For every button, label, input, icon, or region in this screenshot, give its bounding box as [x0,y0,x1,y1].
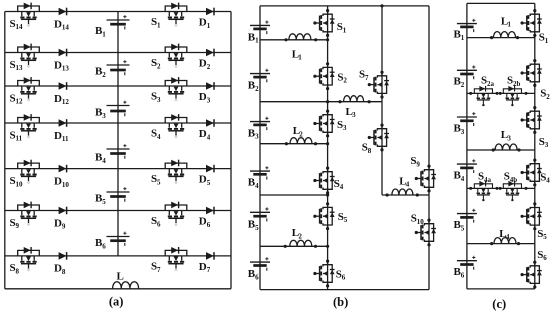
wire switch column of (b) [327,6,329,290]
transistor S1 [151,3,187,30]
battery B2 of (c) [454,65,477,89]
wire L4 link of (b) [382,194,429,196]
transistor S3 of (b) [313,110,347,138]
svg-text:2: 2 [343,77,347,85]
transistor S4a [474,171,492,202]
transistor S6 of (b) [313,260,345,288]
battery B5 of (c) [454,209,477,233]
svg-text:3: 3 [461,128,465,136]
svg-text:4: 4 [102,157,106,165]
battery B5 [95,187,130,206]
wire S7-S8 branch of (b) [381,6,383,195]
svg-text:2: 2 [207,63,211,71]
svg-text:2: 2 [461,81,465,89]
battery B1 of (b) [248,21,270,45]
transistor S14 [10,3,40,32]
svg-text:D: D [54,18,62,30]
svg-text:10: 10 [62,181,70,189]
wire left battery bus of (b) [259,6,261,290]
transistor S1 of (c) [521,9,549,45]
battery B3 [95,101,130,120]
wire top rail of (c) [467,2,535,4]
diode D6 [199,207,214,229]
svg-text:D: D [199,128,207,140]
diode D12 [54,82,69,106]
svg-text:3: 3 [352,111,356,119]
svg-text:4: 4 [255,182,259,190]
diode D2 [199,49,214,71]
svg-text:1: 1 [461,34,465,42]
transistor S10 of (b) [411,213,436,247]
transistor S6 of (c) [521,249,548,289]
svg-text:L: L [117,271,124,283]
battery B6 of (c) [454,256,477,280]
battery B2 of (b) [248,69,270,93]
diode D1 [199,8,214,30]
svg-text:10: 10 [16,180,24,188]
svg-text:4a: 4a [484,176,492,184]
svg-text:D: D [199,215,207,227]
diode D8 [54,252,67,276]
battery B6 [95,232,130,251]
wire middle battery bus of (a) [117,12,119,256]
svg-text:D: D [199,91,207,103]
transistor S2a [474,75,494,107]
transistor S2 of (c) [521,59,550,101]
wire row 4 of (a) [5,122,231,124]
battery B5 of (b) [248,207,270,232]
wire B3-B4 link of (b) [260,143,328,145]
svg-text:3: 3 [102,112,106,120]
svg-text:8: 8 [62,268,66,276]
wire B2-B3 link with L3 of (b) [260,101,382,103]
transistor S5 of (c) [521,202,548,241]
diode D14 [54,8,69,32]
battery B3 of (c) [454,112,477,136]
inductor L2 upper of (b) [290,125,312,144]
svg-text:6: 6 [207,221,211,229]
transistor S4 of (c) [521,159,550,187]
svg-text:D: D [54,59,62,71]
transistor S9 [10,202,40,231]
transistor S4b [503,171,521,202]
wire row 6 of (a) [5,210,231,212]
svg-text:D: D [199,57,207,69]
svg-text:4: 4 [157,133,161,141]
transistor S11 [10,114,40,143]
svg-text:D: D [199,261,207,273]
wire B4-B5 link of (b) [260,194,328,196]
svg-text:3: 3 [157,96,161,104]
svg-text:5: 5 [543,233,547,241]
svg-text:4: 4 [546,177,550,185]
svg-text:(b): (b) [333,295,348,309]
diode D7 [199,252,214,274]
svg-text:5: 5 [344,216,348,224]
wire row 5 of (a) [5,168,231,170]
svg-text:6: 6 [543,254,547,262]
wire L1 link of (b) [260,39,328,41]
wire L1 link of (c) [467,37,535,39]
battery B4 of (b) [248,166,270,190]
wire right border of (b) [428,6,430,290]
transistor S1 of (b) [313,9,346,37]
inductor L1 of (c) [494,15,516,37]
svg-text:2: 2 [546,93,550,101]
wire row 2 of (a) [5,52,231,54]
svg-text:5: 5 [461,225,465,233]
battery B4 [95,144,130,165]
svg-text:9: 9 [416,160,420,168]
inductor L4 of (c) [494,228,516,244]
svg-text:6: 6 [342,274,346,282]
svg-text:9: 9 [62,223,66,231]
transistor S8 [10,247,40,276]
svg-text:1: 1 [207,22,211,30]
transistor S5 [151,160,187,187]
svg-text:1: 1 [545,37,549,45]
svg-text:6: 6 [102,242,106,250]
transistor S5 of (b) [313,202,347,230]
svg-text:D: D [54,217,62,229]
svg-text:2: 2 [255,85,259,93]
inductor L3 of (c) [495,129,517,150]
svg-text:14: 14 [62,24,70,32]
svg-text:D: D [54,175,62,187]
svg-text:11: 11 [16,135,23,143]
svg-text:D: D [199,174,207,186]
svg-text:13: 13 [16,64,24,72]
transistor S6 [151,202,187,229]
svg-text:3: 3 [545,141,549,149]
wire bottom rail of (a) [5,288,231,290]
svg-text:7: 7 [365,74,369,82]
svg-text:10: 10 [417,218,425,226]
svg-text:2: 2 [157,63,161,71]
svg-text:2a: 2a [487,80,495,88]
svg-text:6: 6 [157,221,161,229]
transistor S2 [151,44,187,71]
svg-text:D: D [199,16,207,28]
svg-text:4: 4 [461,175,465,183]
svg-text:7: 7 [207,266,211,274]
diode D11 [54,119,69,143]
battery B3 of (b) [248,117,270,141]
wire bottom rail of (b) [260,289,429,291]
transistor S7 of (b) [359,69,389,99]
svg-text:2: 2 [299,130,303,138]
transistor S4 of (b) [313,167,343,195]
battery B2 [95,60,130,79]
svg-text:12: 12 [16,98,24,106]
svg-text:D: D [54,93,62,105]
svg-text:3: 3 [207,96,211,104]
transistor S10 [10,160,40,189]
svg-text:14: 14 [16,23,24,31]
svg-text:6: 6 [461,272,465,280]
svg-text:3: 3 [255,133,259,141]
diode D4 [199,119,214,141]
transistor S12 [10,77,40,106]
wire row 1 of (a) [5,11,231,13]
svg-text:1: 1 [157,22,161,30]
wire L4 link of (c) [467,243,535,245]
svg-text:5: 5 [102,198,106,206]
svg-text:8: 8 [368,147,372,155]
svg-text:(c): (c) [492,297,506,311]
transistor S7 [151,247,187,274]
wire S2a-S2b link of (c) [467,92,535,94]
inductor L3 of (b) [344,96,364,120]
svg-text:4: 4 [340,183,344,191]
wire L3 link of (c) [467,149,535,151]
wire top rail of (b) [260,5,429,7]
wire right switch bus of (c) [534,3,536,289]
wire row 3 of (a) [5,85,231,87]
diode D9 [54,207,67,231]
wire left battery bus of (c) [466,3,468,289]
svg-text:1: 1 [102,30,106,38]
inductor L4 of (b) [392,175,413,195]
svg-text:6: 6 [255,273,259,281]
wire S4a-S4b link of (c) [467,187,535,189]
diode D5 [199,165,214,187]
svg-text:2: 2 [102,71,106,79]
transistor S8 of (b) [362,124,389,155]
svg-text:4: 4 [207,133,211,141]
transistor S2 of (b) [313,62,347,90]
inductor L2 lower of (b) [290,227,312,246]
svg-text:(a): (a) [109,295,124,309]
inductor L1 of (b) [289,34,311,62]
transistor S13 [10,44,40,73]
svg-text:3: 3 [507,134,511,142]
svg-text:2: 2 [298,233,302,241]
svg-text:12: 12 [62,98,70,106]
battery B1 of (c) [454,19,477,42]
svg-text:9: 9 [16,222,20,230]
wire row 7 of (a) [5,255,231,257]
transistor S3 [151,77,187,104]
svg-text:5: 5 [157,179,161,187]
svg-text:5: 5 [207,179,211,187]
battery B6 of (b) [248,257,270,281]
wire left border of (a) [4,12,6,289]
svg-text:1: 1 [255,37,259,45]
battery B1 [95,15,130,38]
wire bottom rail of (c) [467,288,535,290]
svg-text:1: 1 [508,21,512,29]
svg-text:1: 1 [343,27,347,35]
wire right border of (a) [230,12,232,289]
diode D3 [199,82,214,104]
battery B4 of (c) [454,159,477,183]
transistor S4 [151,114,187,141]
wire B5-B6 link of (b) [260,245,328,247]
svg-text:D: D [54,130,62,142]
diode D13 [54,49,69,73]
svg-text:D: D [54,263,62,275]
svg-text:5: 5 [255,224,259,232]
transistor S3 of (c) [521,106,549,149]
svg-text:4: 4 [506,233,510,241]
diode D10 [54,165,69,189]
svg-text:4b: 4b [510,176,518,184]
svg-text:3: 3 [343,124,347,132]
svg-text:4: 4 [406,181,410,189]
svg-text:2b: 2b [513,80,521,88]
svg-text:7: 7 [157,266,161,274]
svg-text:13: 13 [62,65,70,73]
svg-text:8: 8 [16,268,20,276]
svg-text:1: 1 [298,54,302,62]
svg-text:11: 11 [62,135,69,143]
transistor S9 of (b) [410,155,436,193]
inductor L [113,271,139,289]
transistor S2b [503,75,521,107]
